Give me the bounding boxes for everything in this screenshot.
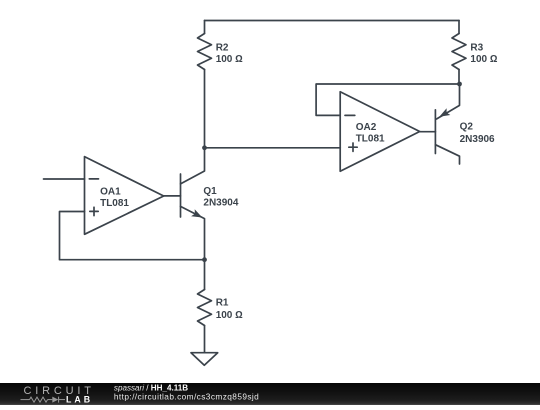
svg-text:TL081: TL081 [100,198,129,209]
logo resistor-diode glyph [21,397,66,403]
label R1 value [216,297,243,321]
svg-text:Q1: Q1 [203,186,217,197]
node junction J3 [457,82,462,87]
wire OA1 inverting input stub [44,178,85,180]
transistor Q1 [181,148,205,260]
svg-text:100 Ω: 100 Ω [216,310,243,321]
logo LAB text [66,394,93,404]
svg-text:100 Ω: 100 Ω [216,54,243,65]
wire OA1 feedback loop (plus input to node J2) [60,212,205,260]
svg-text:TL081: TL081 [356,134,385,145]
svg-text:http://circuitlab.com/cs3cmzq8: http://circuitlab.com/cs3cmzq859sjd [114,391,259,401]
op-amp OA2 [340,92,420,172]
svg-text:OA2: OA2 [356,122,377,133]
svg-text:2N3906: 2N3906 [460,134,495,145]
node junction J2 [202,257,207,262]
svg-text:Q2: Q2 [460,121,474,132]
label OA2 [356,122,385,145]
wire top rail from R2 to R3 [205,20,460,22]
svg-text:100 Ω: 100 Ω [470,54,497,65]
logo CIRCUIT text [24,385,95,397]
footer credit line [114,383,259,401]
label R3 value [470,42,497,65]
wire OA2 inverting feedback loop to node J3 [316,84,459,115]
svg-text:OA1: OA1 [100,186,121,197]
wire OA2 output to Q2 base [420,131,436,133]
wire J1 to OA2 noninverting input [205,147,341,149]
svg-text:R3: R3 [470,42,483,53]
label OA1 [100,186,129,209]
resistor R2 [198,21,212,148]
svg-text:2N3904: 2N3904 [203,198,238,209]
ground [191,353,218,366]
label R2 value [216,42,243,65]
transistor Q2 [435,84,459,164]
label Q2 [460,121,495,145]
svg-text:R2: R2 [216,42,229,53]
node junction J1 [202,145,207,150]
op-amp OA1 [85,157,164,235]
resistor R3 [452,21,466,85]
svg-text:LAB: LAB [66,394,93,404]
resistor R1 [198,260,212,353]
label Q1 [203,186,238,209]
footer bar [0,383,540,405]
svg-text:R1: R1 [216,297,229,308]
wire OA1 output to Q1 base [164,195,181,197]
